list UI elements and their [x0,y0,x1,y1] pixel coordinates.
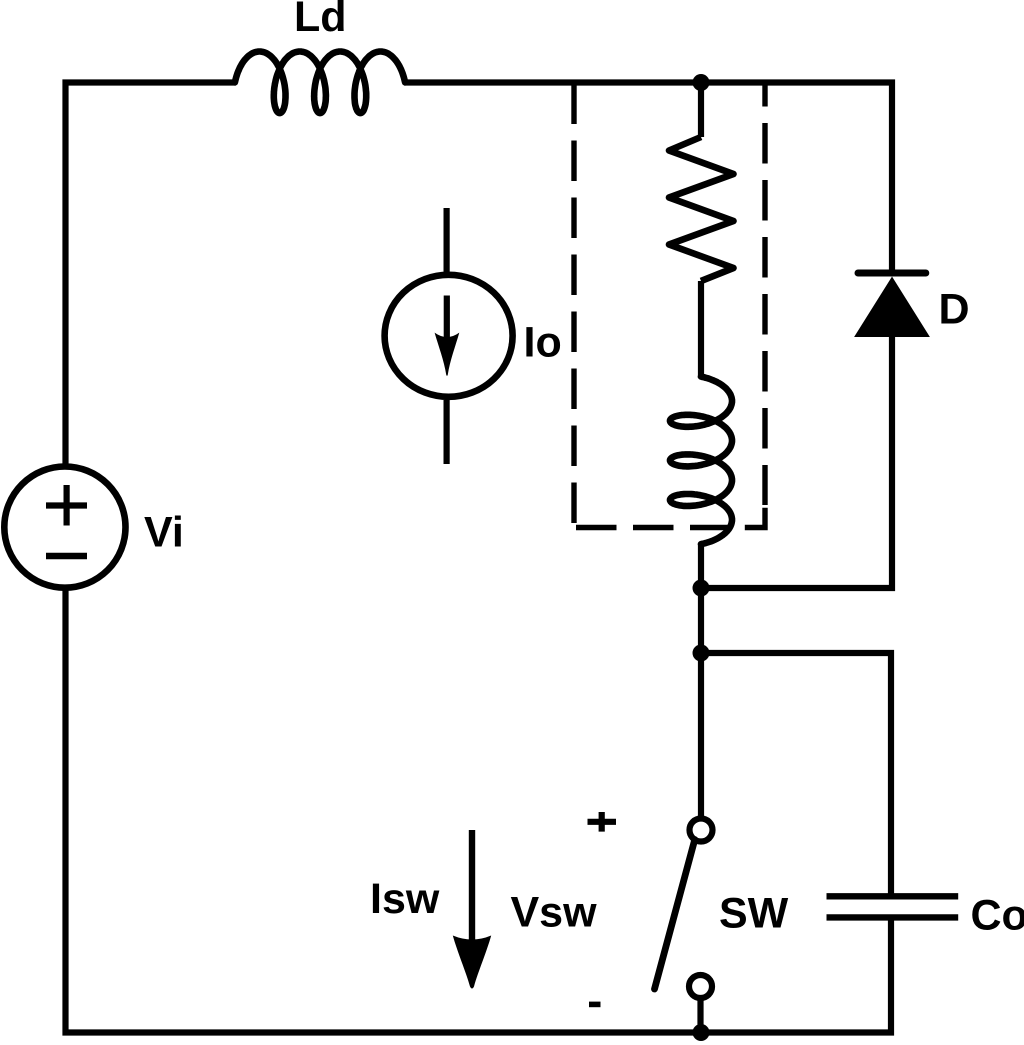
wire: switch to bottom node [697,998,703,1033]
switch SW bottom contact [689,975,712,998]
wire: vertical between junction nodes [698,588,704,653]
diode D triangle [855,278,929,337]
node: top junction [693,74,710,91]
diode D cathode bar [858,270,926,277]
svg-text:Vi: Vi [144,509,184,557]
capacitor Co bottom plate [827,914,959,920]
label minus (switch) [589,1002,601,1008]
arrowhead of Io [435,333,460,376]
dashed box corner [745,508,765,528]
dashed box left edge [571,84,576,525]
wire: left vertical (bottom) + bottom horizontal + capacitor branch bottom [66,589,892,1033]
inductor (vertical, inside dashed box) [670,377,732,544]
node: bottom junction [693,1024,710,1041]
label plus (switch) [588,812,617,832]
resistor [669,137,734,281]
wire: top node to resistor [698,83,704,138]
wire: node to capacitor branch [701,653,891,897]
wire: node down to switch [698,653,704,817]
voltage source Vi [4,466,125,587]
svg-text:Io: Io [524,319,562,367]
switch SW blade [655,840,695,990]
node: capacitor branch junction [693,645,710,662]
dashed box bottom edge [574,525,741,530]
node: coil/diode junction [693,580,710,597]
svg-text:SW: SW [719,890,789,938]
arrow Isw shaft [469,830,475,940]
current source Io [385,208,513,464]
svg-text:Ld: Ld [294,0,347,41]
dashed box right edge [762,83,767,506]
switch SW top contact [690,819,713,842]
wire: left vertical (top) + top horizontal to Ld [66,83,237,466]
inductor Ld [235,52,405,114]
svg-text:D: D [939,286,970,334]
svg-text:Co: Co [971,892,1024,940]
arrowhead Isw [453,936,491,989]
capacitor Co top plate [827,893,959,899]
svg-text:Vsw: Vsw [511,889,598,937]
wire: resistor to coil [698,281,704,378]
wire: top horizontal from Ld to top-right corner + diode branch upper segment [404,83,892,275]
wire: junction to diode branch [701,334,892,588]
svg-text:Isw: Isw [370,875,440,923]
wire: coil to node [698,544,704,588]
